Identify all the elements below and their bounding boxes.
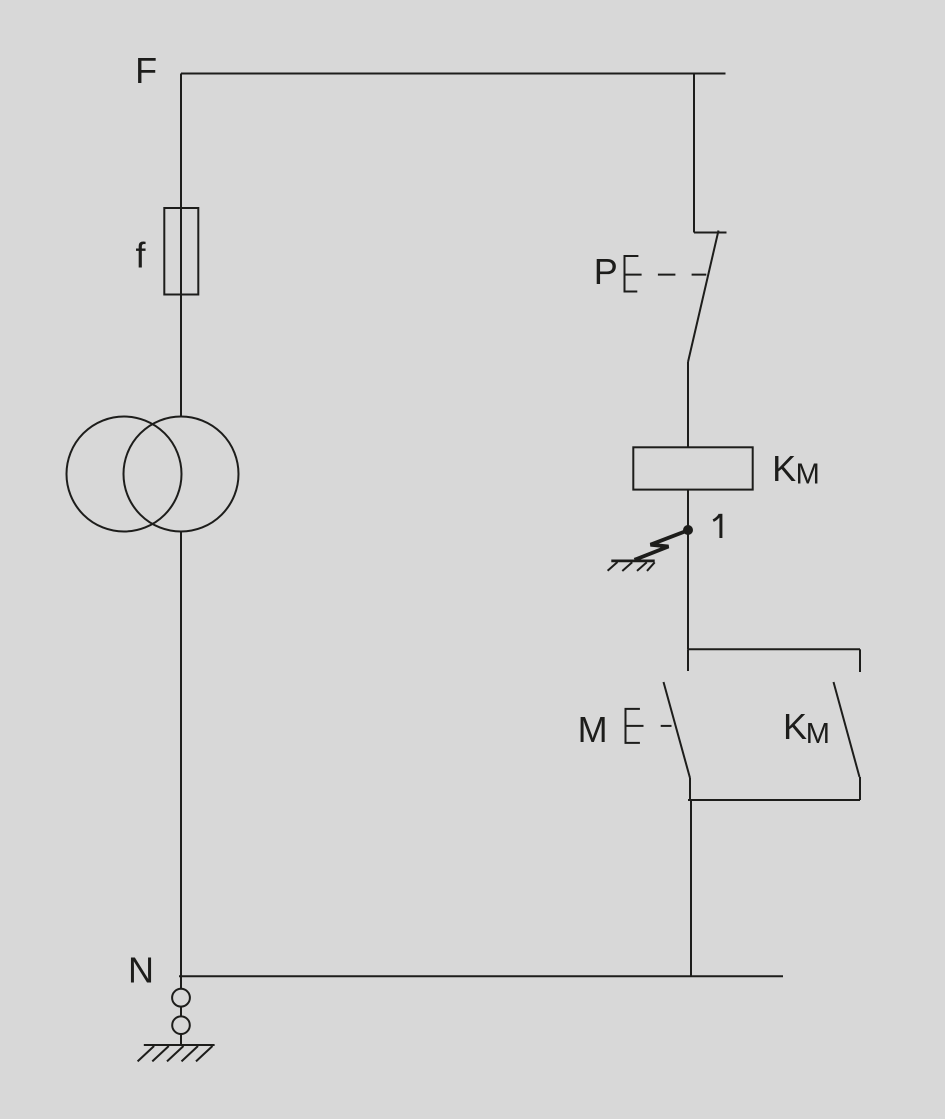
wire left vertical from F bus through fuse to transformer: [180, 74, 182, 417]
wire coil to branch split: [687, 490, 689, 650]
wire top bus F: [181, 73, 726, 75]
wire N to earth link: [180, 976, 182, 989]
transformer left circle: [67, 417, 182, 532]
wire M branch bottom stub: [689, 778, 691, 800]
svg-text:M: M: [796, 459, 820, 491]
node 1 junction dot: [683, 525, 693, 535]
wire branch join bottom horizontal: [688, 799, 860, 801]
svg-text:N: N: [128, 950, 154, 991]
wire M branch top stub: [687, 649, 689, 671]
switch P fixed contact tick: [694, 232, 727, 234]
wire KM branch bottom stub: [859, 777, 861, 800]
wire between link circles: [180, 1007, 182, 1017]
earth fault bolt at node 1: [635, 531, 688, 560]
wire right branch drop from F bus: [693, 74, 695, 233]
fuse f: [164, 208, 198, 295]
wire left vertical from transformer to N bus: [180, 532, 182, 977]
switch P moving lever (NC): [688, 231, 719, 363]
svg-text:f: f: [136, 235, 147, 276]
wire branch split top horizontal: [688, 648, 860, 650]
svg-text:K: K: [772, 448, 796, 489]
wire branch to N bus: [690, 800, 692, 976]
node 1 label: [719, 514, 722, 538]
button P actuator dashed link: [658, 274, 706, 276]
earth link circle lower: [172, 1016, 190, 1034]
svg-text:K: K: [783, 706, 807, 747]
wire KM branch top stub: [859, 649, 861, 672]
coil KM rectangle: [633, 447, 752, 489]
button P actuator bracket: [625, 255, 642, 293]
wire link to ground: [180, 1034, 182, 1045]
ground N: bar: [144, 1044, 215, 1046]
earth fault ground hatches: [608, 562, 655, 571]
contact KM moving lever (NO): [834, 682, 860, 777]
wire N bus: [179, 975, 783, 977]
earth fault ground bar: [611, 560, 654, 563]
transformer right circle: [124, 417, 239, 532]
svg-text:M: M: [806, 718, 830, 750]
ground N: hatches: [138, 1046, 213, 1061]
earth link circle upper: [172, 989, 190, 1007]
svg-text:F: F: [135, 50, 157, 91]
svg-text:P: P: [594, 251, 618, 292]
button M actuator bracket: [626, 708, 644, 744]
switch M moving lever (NO): [664, 682, 691, 778]
button M actuator dashed link: [661, 725, 672, 727]
svg-text:M: M: [578, 709, 608, 750]
wire P to coil KM: [687, 362, 689, 447]
